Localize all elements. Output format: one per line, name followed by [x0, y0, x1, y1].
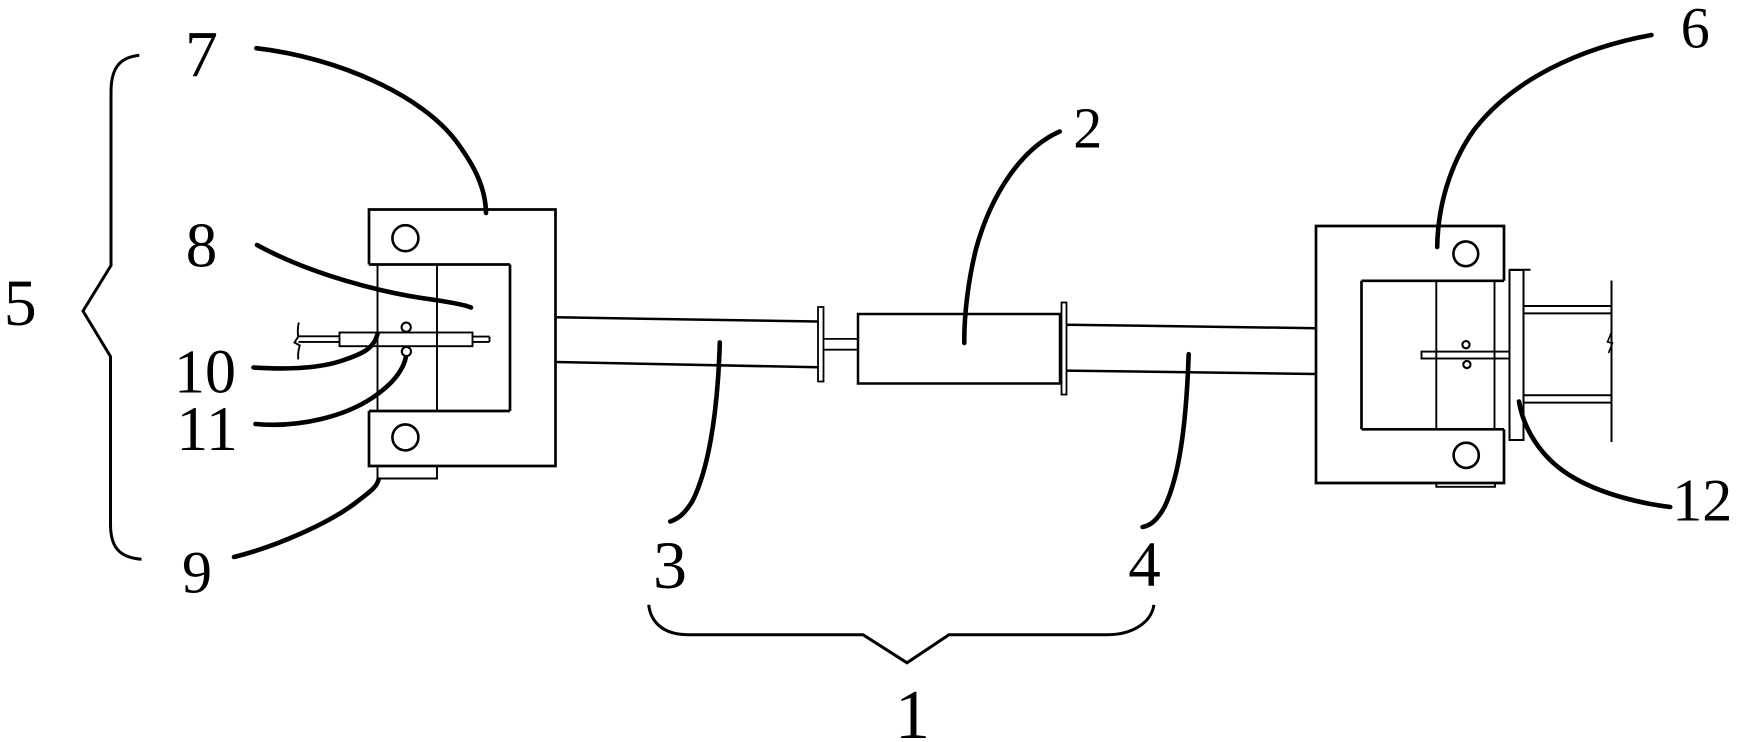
svg-text:3: 3: [653, 527, 687, 603]
svg-text:11: 11: [176, 393, 238, 464]
svg-text:9: 9: [182, 540, 212, 606]
svg-text:2: 2: [1073, 96, 1102, 161]
svg-text:4: 4: [1128, 529, 1161, 601]
svg-text:12: 12: [1672, 468, 1732, 534]
svg-text:1: 1: [895, 677, 930, 742]
svg-text:6: 6: [1681, 0, 1710, 61]
svg-text:5: 5: [4, 267, 37, 340]
svg-text:7: 7: [185, 18, 218, 91]
svg-text:8: 8: [186, 211, 218, 281]
